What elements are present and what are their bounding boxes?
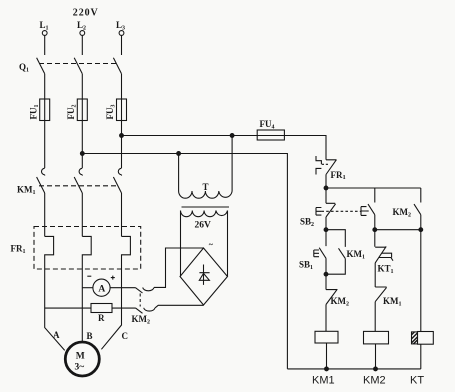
sign plus (111, 276, 115, 280)
contactor KM2 link (dashed) (139, 294, 141, 307)
wire control top rail (326, 187, 421, 189)
switch Q1 pole 2 (74, 58, 82, 74)
wire phase3 FR1 to motor C (101, 269, 121, 349)
wire secondary left lead (180, 211, 182, 277)
terminal L1 (42, 31, 47, 36)
svg-text:R: R (98, 313, 105, 323)
svg-text:FU2: FU2 (66, 105, 78, 120)
wire KT branch (420, 230, 422, 332)
svg-text:B: B (87, 331, 93, 341)
transformer T primary winding (179, 191, 233, 198)
wire phase2 Q1 to FU2 (81, 74, 83, 99)
node SB2 bottom (324, 228, 328, 232)
transformer core (182, 206, 230, 208)
node transformer primary left tap (177, 152, 181, 156)
contactor KM2 braking contact top (136, 288, 143, 293)
wire phase3 KM1 to FR1 (121, 193, 123, 236)
pushbutton SB2 (NC stop) (326, 188, 336, 230)
svg-text:220V: 220V (73, 8, 99, 19)
timer contact KT1 (NC delay) (375, 230, 386, 287)
terminal L3 (119, 31, 124, 36)
wire bottom rail (287, 368, 420, 370)
rectifier bridge diamond (180, 248, 228, 305)
ammeter A (82, 287, 93, 289)
wire phase3 FU3 to KM1 (121, 121, 123, 169)
switch Q1 link (dashed) (39, 63, 117, 65)
svg-text:KM1: KM1 (347, 249, 366, 261)
heater FR1 element 3 (122, 236, 131, 269)
wire phase2 FR1 to motor B (81, 269, 83, 342)
node control line2 tap on phase2 (80, 152, 84, 156)
contactor KM1 main contact 1 (37, 168, 45, 193)
wire L3 lead (121, 35, 123, 55)
transformer secondary winding (181, 211, 228, 217)
wire phase1 FU1 to KM1 (44, 121, 46, 169)
contact KM2 aux (self-hold, right) (414, 188, 421, 230)
svg-text:KM1: KM1 (17, 185, 36, 197)
fuse FU3 (117, 99, 127, 121)
wire phase1 Q1 to FU1 (44, 74, 46, 99)
linkage SB2 dashed (321, 210, 361, 212)
node transformer primary right tap (230, 134, 234, 138)
contact KM2 NC interlock (326, 274, 337, 331)
wire link 229.7 (375, 229, 421, 231)
svg-text:T: T (203, 182, 209, 192)
fuse FU4 (257, 130, 284, 140)
node SB1 bottom (324, 272, 328, 276)
svg-text:M: M (76, 352, 85, 362)
svg-text:KT1: KT1 (378, 264, 394, 276)
svg-text:KM2: KM2 (132, 314, 151, 326)
wire control line1 (122, 136, 327, 160)
motor M (65, 342, 99, 376)
terminal L2 (80, 31, 85, 36)
node KM2 coil to rail (374, 367, 378, 371)
svg-text:C: C (122, 331, 129, 341)
pushbutton SB1 (NO start) (319, 230, 326, 275)
diode inside bridge (199, 265, 209, 285)
svg-text:KM2: KM2 (393, 207, 412, 219)
svg-text:A: A (53, 330, 60, 340)
wire L1 lead (44, 35, 46, 55)
svg-text:Q1: Q1 (19, 62, 29, 74)
contact KM1 NC interlock (brake branch) (375, 287, 386, 331)
pushbutton SB2 linked NO contact (brake branch) (368, 188, 375, 230)
svg-text:3~: 3~ (75, 363, 85, 373)
wire phase1 KM1 to FR1 (44, 193, 46, 236)
node after FR1 (324, 186, 328, 190)
relay FR1 dashed box (34, 227, 141, 270)
svg-text:KT: KT (410, 375, 424, 387)
wire transformer primary leads (179, 136, 233, 192)
node KM1 coil to rail (325, 367, 329, 371)
coil KM1 (315, 331, 338, 343)
svg-text:KM2: KM2 (331, 296, 350, 308)
contact KM1 aux (self-hold) (326, 230, 345, 275)
sign minus (87, 275, 91, 277)
wire secondary right lead (227, 211, 229, 277)
contactor KM2 braking contact bottom (136, 308, 143, 313)
svg-text:FR1: FR1 (11, 244, 26, 256)
svg-text:L1: L1 (40, 20, 49, 32)
heater FR1 element 2 (82, 236, 91, 269)
svg-text:KM2: KM2 (363, 375, 386, 387)
switch Q1 pole 1 (37, 58, 45, 74)
svg-text:26V: 26V (195, 221, 212, 231)
svg-text:FU1: FU1 (29, 105, 41, 120)
wire phase1 FR1 to motor A (45, 269, 65, 350)
svg-text:L3: L3 (116, 20, 125, 32)
contactor KM1 main contact 2 (74, 168, 82, 193)
wire phase3 Q1 to FU3 (121, 74, 123, 99)
contactor KM1 link (dashed) (39, 185, 117, 187)
node right branch (419, 228, 423, 232)
wire phase2 FU2 to KM1 (81, 121, 83, 169)
svg-text:KM1: KM1 (312, 375, 335, 387)
node control line1 tap on phase3 (120, 134, 124, 138)
coil KT (418, 332, 434, 345)
svg-text:L2: L2 (77, 20, 86, 32)
relay FR1 NC contact (control) (326, 160, 337, 188)
svg-text:FU4: FU4 (260, 119, 275, 131)
resistor R (45, 307, 91, 309)
fuse FU2 (77, 99, 87, 121)
heater FR1 element 1 (45, 236, 54, 269)
wire L2 lead (81, 35, 83, 55)
fuse FU1 (40, 99, 50, 121)
node brake branch (373, 228, 377, 232)
wire phase2 KM1 to FR1 (81, 193, 83, 236)
svg-text:A: A (98, 284, 105, 294)
svg-text:FU3: FU3 (105, 105, 117, 120)
svg-text:SB1: SB1 (299, 260, 313, 272)
svg-text:FR1: FR1 (331, 170, 346, 181)
svg-text:~: ~ (209, 240, 214, 249)
svg-text:SB2: SB2 (300, 217, 314, 229)
wire control line2 / left rail (82, 154, 287, 369)
contactor KM1 main contact 3 (113, 168, 121, 193)
svg-text:KM1: KM1 (383, 296, 402, 308)
coil KM2 (364, 331, 389, 344)
switch Q1 pole 3 (113, 58, 121, 74)
